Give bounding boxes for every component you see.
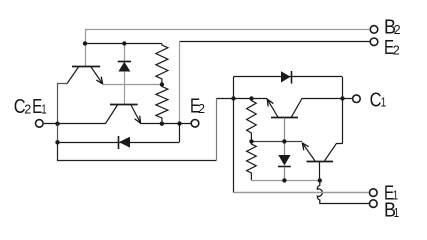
svg-text:1: 1 <box>394 207 399 220</box>
svg-text:2: 2 <box>394 23 401 37</box>
svg-text:2: 2 <box>198 102 205 116</box>
svg-text:1: 1 <box>381 96 386 109</box>
svg-text:1: 1 <box>41 104 46 117</box>
svg-text:2: 2 <box>24 103 31 117</box>
svg-text:2: 2 <box>393 43 400 57</box>
svg-text:C: C <box>370 88 382 111</box>
